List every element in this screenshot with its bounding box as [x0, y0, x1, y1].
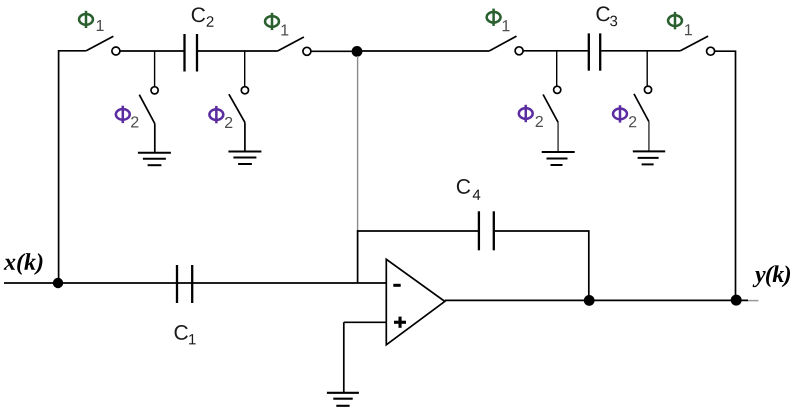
switch S4 contact circle — [707, 47, 715, 55]
wire node A down gray — [357, 56, 359, 231]
wire left branch vertical — [59, 51, 87, 283]
wire drop to switch S8 — [646, 51, 648, 86]
wire feedback right — [495, 231, 589, 297]
node y(k) junction dot — [731, 295, 742, 306]
switch S2 contact circle — [303, 47, 311, 55]
wire op-amp output — [445, 299, 748, 301]
switch S3 contact circle — [515, 47, 523, 55]
wire S4 to output — [715, 51, 736, 297]
switch S6 phase2 arm — [229, 94, 245, 122]
switch S8 phase2 arm — [634, 94, 649, 122]
op-amp plus sign — [394, 317, 406, 328]
switch S3 phase1 arm — [489, 36, 516, 51]
label x(k) — [4, 253, 43, 275]
switch S8 contact circle — [644, 86, 651, 93]
label phi2 third — [519, 105, 533, 122]
wire feedback top — [357, 230, 478, 232]
wire S3 to C3 — [523, 50, 588, 52]
switch S7 phase2 arm — [543, 95, 558, 123]
wire S2 to node A — [311, 50, 357, 52]
wire S1 to C2 — [120, 50, 184, 52]
label phi1 first — [79, 11, 93, 28]
wire C3 to S4 — [601, 50, 680, 52]
label phi1 third — [487, 9, 501, 26]
capacitor C1 — [177, 265, 192, 303]
label C1 — [175, 325, 196, 344]
wire S7 to ground — [557, 122, 559, 151]
ground G2 — [228, 152, 261, 165]
wire to inverting input — [357, 230, 359, 283]
capacitor C3 — [589, 33, 600, 70]
ground G1 — [138, 153, 171, 165]
wire S8 to ground — [648, 122, 650, 151]
label C3 — [596, 6, 617, 26]
wire input x(k) horizontal — [4, 282, 386, 284]
label phi1 fourth — [668, 12, 682, 29]
capacitor C2 — [185, 34, 198, 72]
op-amp U1 triangle — [386, 259, 445, 345]
wire drop to switch S7 — [556, 51, 558, 86]
wire output stub gray — [748, 300, 759, 302]
node input junction dot — [53, 278, 63, 288]
wire noninverting to ground — [343, 322, 345, 392]
label C4 — [457, 179, 480, 200]
switch S6 contact circle — [241, 87, 248, 94]
label phi2 second — [209, 106, 223, 123]
switch S5 phase2 arm — [139, 95, 155, 124]
node A junction dot — [352, 46, 363, 57]
node output junction dot — [584, 295, 595, 306]
switch S2 phase1 arm — [278, 37, 304, 51]
ground G4 — [633, 151, 665, 164]
label phi2 fourth — [613, 105, 627, 122]
switch S5 contact circle — [151, 87, 158, 94]
switch S1 contact circle — [112, 47, 120, 55]
switch S7 contact circle — [554, 86, 561, 93]
wire node A to S3 — [357, 50, 489, 52]
wire C2 to S2 — [198, 50, 278, 52]
label phi2 first — [116, 106, 130, 123]
capacitor C4 — [479, 211, 494, 250]
ground G5 — [327, 393, 359, 406]
label y(k) — [753, 265, 790, 287]
op-amp minus sign — [393, 284, 400, 287]
label C2 — [192, 7, 214, 26]
wire noninverting input — [344, 321, 387, 323]
ground G3 — [542, 152, 575, 165]
switch S1 phase1 arm — [86, 36, 113, 51]
wire drop to switch S6 — [244, 51, 246, 86]
switch S4 phase1 arm — [680, 36, 708, 51]
label phi1 second — [265, 13, 279, 30]
wire drop to switch S5 — [154, 51, 156, 86]
wire S5 to ground — [154, 124, 156, 152]
wire S6 to ground — [244, 122, 246, 150]
